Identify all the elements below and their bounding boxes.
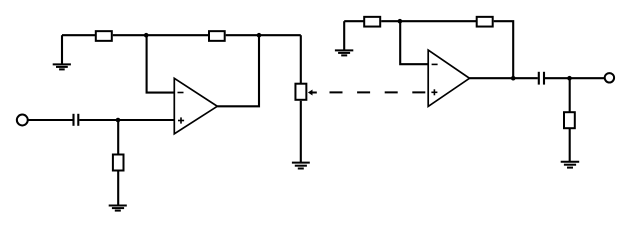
wire R2 to ground [117, 171, 119, 206]
wire U2 output to C2 [470, 77, 538, 79]
wire C1 to U1 plus input [79, 119, 174, 121]
dashed wire from VR1 wiper to U2 plus input [330, 91, 428, 93]
input terminal J1 [17, 115, 28, 126]
potentiometer VR1 [295, 84, 306, 100]
wire ground to R1 [62, 34, 96, 36]
output terminal J2 [605, 73, 614, 82]
node D (stage-2 feedback junction) [398, 19, 403, 24]
wire node B down to U1 minus input [147, 35, 175, 92]
ground (top-left, stage 1) [53, 35, 71, 69]
wiper arrow of VR1 [308, 90, 317, 96]
wire R4 to R5 [381, 20, 477, 22]
resistor R5 [477, 17, 493, 27]
wire node A down to R2 [117, 120, 119, 155]
wire ground to R4 [344, 20, 364, 22]
ground (below R2) [109, 206, 127, 211]
resistor R1 [96, 31, 112, 41]
wire node D down to U2 minus input [400, 21, 428, 64]
node B (inverting feedback junction) [144, 33, 149, 38]
wire corner down to potentiometer VR1 [300, 35, 302, 83]
op-amp U2 [428, 50, 469, 106]
capacitor C1 [74, 114, 79, 126]
resistor R3 [209, 31, 225, 41]
wire R3 to corner above VR1 [226, 34, 301, 36]
ground (top-left, stage 2) [335, 21, 353, 55]
node F (output junction) [567, 76, 572, 81]
node C (output feedback junction) [257, 33, 262, 38]
resistor R4 [364, 17, 380, 27]
wire U1 output up to node C [217, 35, 259, 106]
ground (below R6) [561, 162, 580, 168]
resistor R2 [113, 155, 124, 171]
resistor R6 [564, 112, 575, 128]
wire VR1 to ground [300, 101, 302, 163]
wire node F down to R6 [569, 78, 571, 112]
capacitor C2 [539, 72, 544, 85]
wire J1 to C1 [28, 119, 73, 121]
wire R6 to ground [569, 128, 571, 162]
node A (junction on plus input) [116, 118, 121, 123]
ground (below VR1) [292, 163, 310, 169]
node E (U2 output junction) [511, 76, 516, 81]
wire R1 to R3 [113, 34, 209, 36]
wire R5 down to U2 output node [494, 21, 514, 78]
wire C2 to output terminal J2 [545, 77, 605, 79]
op-amp U1 [174, 78, 217, 134]
